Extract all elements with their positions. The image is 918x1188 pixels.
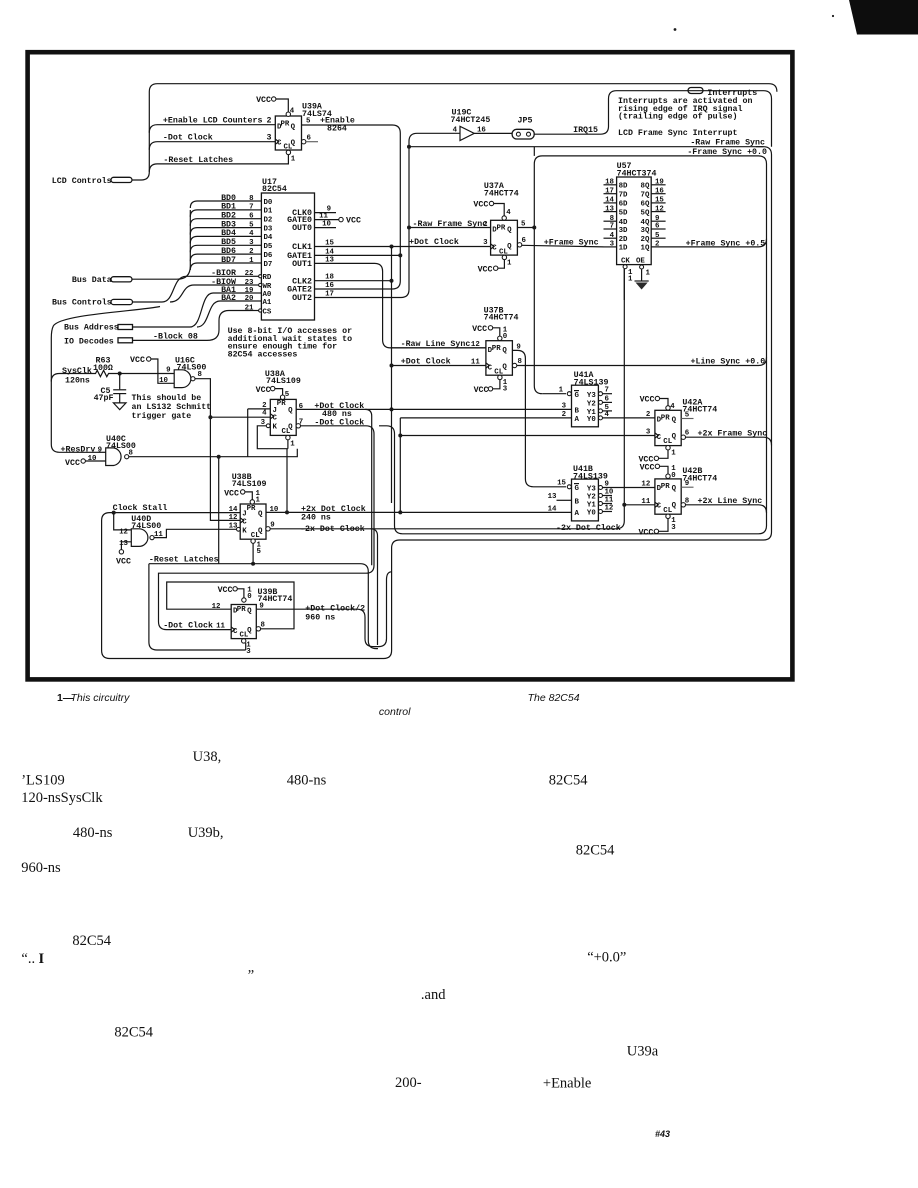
svg-text:D: D xyxy=(488,347,493,355)
pins U41A outputs Y3 Y2 Y1 Y0 xyxy=(599,387,613,420)
svg-text:3Q: 3Q xyxy=(641,227,650,235)
svg-text:G: G xyxy=(575,485,580,493)
wire +2x Line Sync from U42B Q-bar pin 8 xyxy=(681,496,766,513)
svg-text:10: 10 xyxy=(322,221,331,229)
pin U57 OE pin 1 to ground xyxy=(636,257,651,281)
svg-text:Q: Q xyxy=(507,243,512,251)
wire LCD Controls bus loop to top rail xyxy=(132,84,777,180)
svg-text:5D: 5D xyxy=(619,209,628,217)
svg-text:13: 13 xyxy=(325,256,334,264)
svg-text:CS: CS xyxy=(263,308,272,316)
svg-text:VCC: VCC xyxy=(472,325,487,334)
svg-text:82C54: 82C54 xyxy=(262,185,287,194)
svg-text:16: 16 xyxy=(325,282,334,290)
svg-text:3: 3 xyxy=(483,239,488,247)
wire +Enable LCD Counters branch xyxy=(149,116,275,133)
wire U40C output -Reset Latches net xyxy=(129,449,297,564)
svg-text:4: 4 xyxy=(506,209,511,217)
wire U17 GATE2 pin16 xyxy=(287,282,334,295)
svg-text:Q: Q xyxy=(258,527,263,535)
svg-text:82C54: 82C54 xyxy=(72,933,111,949)
svg-text:This circuitry: This circuitry xyxy=(71,692,131,704)
wire U39A Q pin5 +Enable rail to GATE1 GATE2 xyxy=(302,116,403,289)
svg-text:14: 14 xyxy=(605,197,614,205)
note text 8-bit I/O accesses xyxy=(228,326,352,359)
wire U37A Q pin 5 to -Frame Sync rail xyxy=(517,220,534,228)
wire left bus sweep down to SysClk and +ResDrv xyxy=(51,307,160,453)
svg-text:-Dot Clock: -Dot Clock xyxy=(163,133,213,143)
svg-text:VCC: VCC xyxy=(218,586,233,595)
note text interrupts activated xyxy=(618,96,752,138)
wire -Raw Frame Sync into U37A D pin 2 xyxy=(409,220,491,229)
svg-text:7: 7 xyxy=(610,223,614,231)
svg-text:2: 2 xyxy=(646,411,650,419)
svg-text:U38,: U38, xyxy=(193,749,222,765)
flip-flop U37A 74HCT74 xyxy=(484,182,519,256)
svg-text:8Q: 8Q xyxy=(641,183,650,191)
svg-text:Q: Q xyxy=(502,347,507,355)
ground below U57 OE xyxy=(635,281,649,290)
wire IO Decodes -Block 08 to CS xyxy=(133,311,251,342)
wire U16C output to U38B C and U38A C xyxy=(195,379,270,521)
svg-text:5: 5 xyxy=(655,232,660,240)
wire U17 CLK1 pin15 +Dot Clock to U37A C xyxy=(292,239,491,252)
svg-text:1: 1 xyxy=(507,260,512,268)
wire U41B Y3 pin 9 to U42B D pin 12 xyxy=(603,487,655,489)
power VCC to U40C pin 10 xyxy=(65,455,106,468)
svg-text:2: 2 xyxy=(267,117,272,126)
label +Dot Clock into U37B C pin 11 xyxy=(401,356,481,366)
svg-text:4: 4 xyxy=(262,409,267,417)
svg-text:control: control xyxy=(379,706,411,718)
svg-text:8: 8 xyxy=(610,215,615,223)
wire +ResDrv input pin 9 xyxy=(61,446,106,455)
page number #43 xyxy=(655,1129,670,1139)
svg-text:960-ns: 960-ns xyxy=(21,860,61,876)
wire U17 GATE1 pin14 xyxy=(287,248,334,261)
pin U41A B pin 3 from +Dot Clock xyxy=(562,402,567,410)
wire U38A K pin 3 loop to CL xyxy=(257,419,288,449)
pin U39A Q-bar pin6 stub xyxy=(302,134,319,144)
svg-text:.and: .and xyxy=(421,987,446,1003)
svg-text:74LS00: 74LS00 xyxy=(131,522,161,531)
wire -Raw Frame Sync label line xyxy=(409,139,765,148)
svg-text:+Dot Clock/2: +Dot Clock/2 xyxy=(305,604,365,614)
svg-text:VCC: VCC xyxy=(346,216,361,225)
pins U41B outputs Y3 Y2 Y1 Y0 xyxy=(599,480,614,513)
wire +Dot Clock vertical rail to U37B C xyxy=(390,247,486,504)
svg-text:14: 14 xyxy=(548,505,557,513)
svg-text:4: 4 xyxy=(610,232,615,240)
svg-text:-Dot Clock: -Dot Clock xyxy=(163,621,213,631)
svg-text:1: 1 xyxy=(291,156,296,164)
svg-text:0: 0 xyxy=(671,472,676,480)
svg-text:“+0.0”: “+0.0” xyxy=(587,950,626,966)
svg-text:D: D xyxy=(277,124,282,132)
svg-text:Q: Q xyxy=(247,608,252,616)
svg-text:LCD Controls: LCD Controls xyxy=(52,176,112,186)
svg-text:IO Decodes: IO Decodes xyxy=(64,337,114,347)
note text LS132 Schmitt trigger xyxy=(132,393,212,421)
label -2x Dot Clock below U41B xyxy=(556,523,621,533)
svg-text:D7: D7 xyxy=(264,261,273,269)
power VCC to U38B PR pin 11 xyxy=(224,489,260,504)
svg-text:B: B xyxy=(575,498,580,506)
svg-text:4D: 4D xyxy=(619,219,628,227)
svg-text:Y3: Y3 xyxy=(587,392,596,400)
svg-text:CK: CK xyxy=(621,257,630,265)
svg-text:Q: Q xyxy=(672,416,677,424)
flip-flop U38B 74LS109 xyxy=(232,473,267,540)
wire Clock Stall to U38B J pin 14 xyxy=(102,147,772,659)
svg-text:D3: D3 xyxy=(264,225,273,233)
svg-text:+ResDrv: +ResDrv xyxy=(61,446,96,455)
svg-text:10: 10 xyxy=(605,488,614,496)
wire +2x Frame Sync from U42A Q-bar pin 6 xyxy=(681,429,771,445)
svg-text:U39a: U39a xyxy=(627,1043,659,1059)
svg-text:VCC: VCC xyxy=(65,459,80,468)
power VCC to U42A PR pin 4 xyxy=(640,396,676,411)
svg-text:16: 16 xyxy=(655,187,664,195)
svg-text:7D: 7D xyxy=(619,192,628,200)
svg-text:Bus Data: Bus Data xyxy=(72,276,112,285)
wire U17 CLK2 pin18 xyxy=(292,274,393,287)
svg-text:The 82C54: The 82C54 xyxy=(528,692,580,704)
power VCC to U39B PR pin 10 xyxy=(218,586,253,602)
svg-text:Y0: Y0 xyxy=(587,510,596,518)
svg-text:PR: PR xyxy=(237,606,246,614)
power VCC to U37A PR pin 4 xyxy=(473,201,511,221)
svg-text:47pF: 47pF xyxy=(94,394,114,403)
svg-text:A: A xyxy=(575,510,580,518)
svg-text:12: 12 xyxy=(641,480,650,488)
power VCC to U16C pin 10 xyxy=(130,356,174,385)
wire U40D input pin 12 from Clock Stall xyxy=(114,513,132,537)
svg-text:Y1: Y1 xyxy=(587,502,596,510)
pin U42B D pin 12 xyxy=(641,480,650,488)
svg-text:This should be: This should be xyxy=(132,393,202,403)
svg-text:SysClk: SysClk xyxy=(62,366,92,376)
decoder U41A 74LS139 xyxy=(572,371,609,427)
svg-text:120-nsSysClk: 120-nsSysClk xyxy=(21,790,103,806)
svg-text:an LS132 Schmitt: an LS132 Schmitt xyxy=(132,402,212,412)
svg-text:VCC: VCC xyxy=(474,386,489,395)
svg-text:-Raw Frame Sync: -Raw Frame Sync xyxy=(690,139,765,148)
flip-flop U42A 74HCT74 xyxy=(655,398,717,446)
connector tab Interrupts xyxy=(688,88,757,98)
svg-text:VCC: VCC xyxy=(640,464,655,473)
pin U41A G pin 1 xyxy=(559,387,572,396)
svg-text:9: 9 xyxy=(166,367,170,375)
jumper JP5 xyxy=(512,116,534,139)
wire -2x clock into U42B C pin 11 xyxy=(624,498,655,506)
svg-text:10: 10 xyxy=(159,377,168,385)
svg-text:VCC: VCC xyxy=(256,96,271,105)
svg-text:74LS139: 74LS139 xyxy=(573,472,608,481)
svg-text:Q: Q xyxy=(288,407,293,415)
capacitor C5 47pF xyxy=(94,374,127,404)
wire -Raw Line Sync into U37B D pin 12 xyxy=(391,339,486,349)
svg-text:2D: 2D xyxy=(619,236,628,244)
svg-text:17: 17 xyxy=(605,187,614,195)
svg-text:240 ns: 240 ns xyxy=(301,513,331,522)
pin U38A CL pin 1 xyxy=(286,435,296,448)
svg-text:17: 17 xyxy=(325,290,334,298)
pins U17 data bus D0-D7 left side xyxy=(221,194,273,269)
svg-text:18: 18 xyxy=(325,274,334,282)
pins U17 control RD WR A0 A1 CS left side xyxy=(211,269,272,316)
svg-text:(trailing edge of pulse): (trailing edge of pulse) xyxy=(618,112,738,122)
svg-text:#43: #43 xyxy=(655,1129,670,1139)
svg-text:Bus Address: Bus Address xyxy=(64,323,119,333)
svg-text:A: A xyxy=(575,416,580,424)
svg-text:1Q: 1Q xyxy=(641,245,650,253)
svg-text:PR: PR xyxy=(281,120,290,128)
svg-text:9: 9 xyxy=(655,215,659,223)
svg-text:Y0: Y0 xyxy=(587,416,596,424)
svg-text:Clock Stall: Clock Stall xyxy=(113,503,168,513)
svg-text:18: 18 xyxy=(605,179,614,187)
svg-text:I: I xyxy=(39,951,45,967)
pin U39B CL pin 13 xyxy=(242,639,252,656)
pin U41B A pin 14 from +2x Dot Clock xyxy=(548,505,557,513)
svg-text:PR: PR xyxy=(661,483,670,491)
svg-text:A0: A0 xyxy=(263,291,272,299)
svg-text:0: 0 xyxy=(247,593,252,601)
flip-flop U39B 74HCT74 xyxy=(231,588,292,640)
svg-text:6: 6 xyxy=(655,223,660,231)
connector Bus Controls xyxy=(52,298,133,308)
svg-text:OUT1: OUT1 xyxy=(292,260,312,269)
power VCC to U42B CL pin 13 xyxy=(638,514,676,537)
svg-text:120ns: 120ns xyxy=(65,376,90,385)
svg-text:Q: Q xyxy=(247,627,252,635)
svg-text:11: 11 xyxy=(319,213,328,221)
svg-text:B: B xyxy=(575,407,580,415)
wire -Dot Clock into U39B C pin 11 xyxy=(163,621,225,631)
pin U39A CL pin1 xyxy=(286,150,296,163)
svg-text:D: D xyxy=(657,485,662,493)
svg-text:8264: 8264 xyxy=(327,124,347,133)
pin U41A A pin 2 from +2x rail xyxy=(398,411,571,513)
svg-text:12: 12 xyxy=(119,528,128,536)
wire -Frame Sync +0.0 rail from U37A Q xyxy=(379,147,767,534)
svg-text:VCC: VCC xyxy=(478,266,493,275)
svg-text:480-ns: 480-ns xyxy=(73,825,113,841)
svg-text:JP5: JP5 xyxy=(518,116,533,125)
wire U17 OUT1 pin13 to -Raw Line Sync xyxy=(292,256,486,348)
wire Bus Controls fan to RD WR xyxy=(133,276,251,302)
svg-text:“..: “.. xyxy=(21,951,35,967)
connector LCD Controls xyxy=(52,176,132,186)
svg-text:11: 11 xyxy=(471,358,480,366)
svg-text:7Q: 7Q xyxy=(641,192,650,200)
svg-text:19: 19 xyxy=(655,179,664,187)
svg-text:+Frame Sync +0.5: +Frame Sync +0.5 xyxy=(686,239,766,248)
pin U38B J pin14 C pin12 K pin13 numbers xyxy=(229,506,241,531)
svg-text:13: 13 xyxy=(119,540,128,548)
power VCC to U37A CL pin 1 xyxy=(478,255,512,274)
wire +2x clock into U42A C pin 3 xyxy=(400,428,655,436)
pin U42A Q pin 5 stub xyxy=(681,411,693,419)
pin U41B G pin 15 xyxy=(557,480,571,489)
svg-text:6: 6 xyxy=(685,430,690,438)
svg-text:82C54: 82C54 xyxy=(576,843,615,859)
svg-text:D1: D1 xyxy=(264,208,273,216)
svg-text:trigger gate: trigger gate xyxy=(132,411,192,421)
IC U57 74HCT374 octal latch xyxy=(604,162,666,264)
wire +Dot Clock/2 from U39B Q pin 9 xyxy=(256,572,391,647)
svg-text:4: 4 xyxy=(290,108,295,116)
svg-text:7: 7 xyxy=(605,387,609,395)
svg-text:VCC: VCC xyxy=(473,201,488,210)
pin U42B Q pin 9 stub xyxy=(681,480,693,488)
svg-text:VCC: VCC xyxy=(640,396,655,405)
svg-text:D2: D2 xyxy=(264,217,273,225)
svg-text:D: D xyxy=(657,416,662,424)
wire Bus Data fan to D0-D7 xyxy=(132,201,251,279)
svg-text:PR: PR xyxy=(661,415,670,423)
svg-text:Y2: Y2 xyxy=(587,401,596,409)
svg-text:+Enable: +Enable xyxy=(543,1075,591,1091)
power VCC to U38A PR pin 5 xyxy=(256,386,290,400)
decoder U41B 74LS139 xyxy=(572,465,608,521)
svg-text:+Frame Sync: +Frame Sync xyxy=(544,239,599,248)
gate U16C 74LS00 NAND xyxy=(174,357,206,388)
svg-text:-Reset Latches: -Reset Latches xyxy=(149,555,219,565)
svg-text:5: 5 xyxy=(285,391,290,399)
junction node SysClk xyxy=(118,372,122,376)
svg-text:Q: Q xyxy=(258,511,263,519)
svg-text:Q: Q xyxy=(502,363,507,371)
svg-text:K: K xyxy=(242,527,247,535)
svg-text:D: D xyxy=(492,227,497,235)
svg-text:1: 1 xyxy=(559,387,564,395)
svg-text:5Q: 5Q xyxy=(641,209,650,217)
svg-text:3D: 3D xyxy=(619,227,628,235)
svg-text:8: 8 xyxy=(518,358,523,366)
svg-text:U39b,: U39b, xyxy=(188,825,224,841)
svg-text:1: 1 xyxy=(256,497,261,505)
wire -Dot Clock branch xyxy=(149,133,275,150)
svg-text:8D: 8D xyxy=(619,183,628,191)
svg-text:G: G xyxy=(575,392,580,400)
svg-text:D4: D4 xyxy=(264,234,273,242)
label SysClk 120ns xyxy=(62,366,92,385)
svg-text:1: 1 xyxy=(646,270,651,278)
svg-text:15: 15 xyxy=(655,197,664,205)
svg-text:3: 3 xyxy=(246,648,251,656)
svg-text:”: ” xyxy=(248,967,254,983)
svg-text:1: 1 xyxy=(628,275,633,283)
wire +Frame Sync from U37A Q-bar pin 6 to U57 1D xyxy=(517,237,603,248)
svg-text:200-: 200- xyxy=(395,1075,422,1091)
svg-text:J: J xyxy=(242,511,246,519)
svg-text:12: 12 xyxy=(229,514,238,522)
svg-text:4Q: 4Q xyxy=(641,219,650,227)
svg-text:74HCT74: 74HCT74 xyxy=(484,314,519,323)
svg-text:PR: PR xyxy=(492,345,501,353)
svg-text:9: 9 xyxy=(98,447,102,455)
svg-text:A1: A1 xyxy=(263,299,272,307)
svg-text:3: 3 xyxy=(562,402,567,410)
svg-text:74LS139: 74LS139 xyxy=(574,378,609,387)
svg-text:Q: Q xyxy=(291,140,296,148)
svg-text:12: 12 xyxy=(605,504,614,512)
svg-text:Q: Q xyxy=(291,124,296,132)
ground below C5 xyxy=(113,403,126,410)
svg-text:D0: D0 xyxy=(264,199,273,207)
wire U39B feedback loop Q-bar to D pin 12 xyxy=(167,582,294,631)
svg-text:+Line Sync +0.0: +Line Sync +0.0 xyxy=(691,356,766,366)
wire U40D input pin 13 to VCC xyxy=(116,540,131,567)
gate U40D 74LS00 NAND xyxy=(131,515,163,547)
pin U57 CK pin 11 clock from -2x rail xyxy=(621,257,633,300)
svg-text:1: 1 xyxy=(290,441,295,449)
svg-text:K: K xyxy=(273,424,278,432)
wire U37B Q pin 9 down to U41B G xyxy=(512,343,566,487)
svg-text:OE: OE xyxy=(636,257,645,265)
svg-text:VCC: VCC xyxy=(256,386,271,395)
power VCC to U37B CL pin 13 xyxy=(474,375,508,395)
svg-text:OUT0: OUT0 xyxy=(292,224,312,233)
svg-text:6D: 6D xyxy=(619,201,628,209)
svg-text:-Frame Sync +0.0: -Frame Sync +0.0 xyxy=(687,148,767,157)
svg-text:13: 13 xyxy=(548,493,557,501)
flip-flop U38A 74LS109 xyxy=(265,370,301,436)
svg-text:VCC: VCC xyxy=(638,529,653,538)
svg-text:74LS109: 74LS109 xyxy=(232,480,267,489)
svg-text:D: D xyxy=(233,608,238,616)
pin U41B B pin 13 stub xyxy=(548,493,572,501)
svg-text:Q: Q xyxy=(507,227,512,235)
wire -Reset Latches to U39B CL xyxy=(149,555,378,650)
connector Bus Address xyxy=(64,323,133,333)
buffer U19C 74HCT245 xyxy=(451,109,491,141)
power VCC to U42A CL pin 1 xyxy=(638,446,676,465)
svg-text:WR: WR xyxy=(263,283,272,291)
wire SysClk to U16C pin 9 xyxy=(120,367,175,375)
wire -2x Dot Clock from U38B Q-bar pin 9 xyxy=(266,269,627,645)
svg-text:PR: PR xyxy=(497,225,506,233)
wire U19C output to JP5 xyxy=(474,132,512,134)
IC U17 82C54 programmable interval timer xyxy=(261,178,314,320)
svg-text:RD: RD xyxy=(263,274,272,282)
svg-text:13: 13 xyxy=(605,205,614,213)
wire U38A C pin 4 xyxy=(262,409,267,417)
svg-text:3: 3 xyxy=(267,134,272,143)
wire U38A J pin 2 xyxy=(248,402,271,457)
svg-text:4: 4 xyxy=(453,126,458,134)
svg-text:6Q: 6Q xyxy=(641,201,650,209)
svg-text:2Q: 2Q xyxy=(641,236,650,244)
svg-text:14: 14 xyxy=(229,506,238,514)
svg-text:+2x Line Sync: +2x Line Sync xyxy=(698,496,763,506)
svg-text:+2x Frame Sync: +2x Frame Sync xyxy=(698,429,768,438)
svg-text:960 ns: 960 ns xyxy=(305,613,335,622)
svg-text:15: 15 xyxy=(557,480,566,488)
connector Bus Data xyxy=(72,276,132,285)
gate U40C 74LS00 NAND xyxy=(106,435,136,466)
svg-text:8: 8 xyxy=(198,371,203,379)
flip-flop U39A 74LS74 xyxy=(275,103,332,152)
wire -Dot Clock from U38A Q-bar pin 7 xyxy=(159,417,375,629)
wire U41A Y0 pin 4 to U42A D pin 2 xyxy=(603,417,655,419)
wire U17 OUT2 pin17 rail to IRQ buffer xyxy=(292,133,460,303)
svg-text:D5: D5 xyxy=(264,243,273,251)
svg-text:-Block 08: -Block 08 xyxy=(153,331,198,341)
svg-text:Q: Q xyxy=(672,502,677,510)
